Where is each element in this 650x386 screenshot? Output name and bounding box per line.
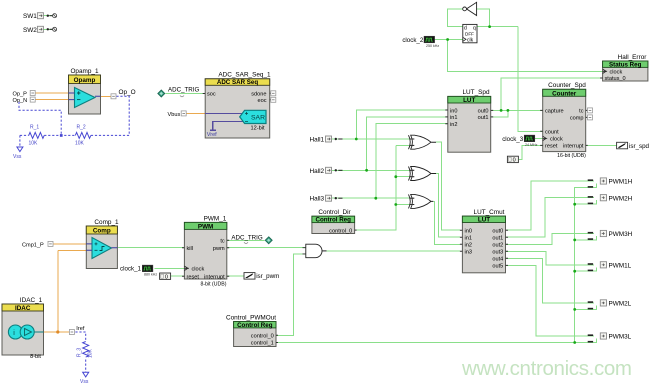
svg-text:eoc: eoc xyxy=(257,98,266,104)
svg-text:out0: out0 xyxy=(492,229,503,235)
svg-text:Control Reg: Control Reg xyxy=(315,217,351,224)
svg-text:DFF: DFF xyxy=(465,31,474,36)
svg-text:capture: capture xyxy=(545,109,564,115)
svg-text:Vref: Vref xyxy=(207,132,217,138)
svg-text:ADC_TRIG: ADC_TRIG xyxy=(231,234,262,241)
svg-text:Vbus: Vbus xyxy=(168,112,181,118)
svg-text:isr_pwm: isr_pwm xyxy=(256,273,279,280)
svg-text:clock_1: clock_1 xyxy=(120,266,142,273)
svg-text:Vss: Vss xyxy=(13,154,22,160)
svg-text:Hall1: Hall1 xyxy=(310,137,325,144)
svg-text:Cmp1_P: Cmp1_P xyxy=(22,242,44,248)
svg-text:Status Reg: Status Reg xyxy=(609,61,642,68)
svg-text:ADC SAR Seq: ADC SAR Seq xyxy=(217,79,258,86)
svg-text:tc: tc xyxy=(579,109,584,115)
svg-text:out5: out5 xyxy=(492,264,503,270)
svg-text:in2: in2 xyxy=(450,122,457,128)
svg-text:clock: clock xyxy=(192,267,205,273)
svg-text:soc: soc xyxy=(207,91,216,97)
svg-text:pwm: pwm xyxy=(213,246,225,252)
svg-text:PWM2H: PWM2H xyxy=(609,195,633,202)
svg-text:out1: out1 xyxy=(492,236,503,242)
svg-text:Opamp: Opamp xyxy=(74,77,96,84)
svg-text:Iref: Iref xyxy=(76,326,85,332)
svg-text:interrupt: interrupt xyxy=(563,144,584,150)
svg-text:250 kHz: 250 kHz xyxy=(426,44,439,48)
svg-text:sdone: sdone xyxy=(251,91,266,97)
svg-text:ADC_SAR_Seq_1: ADC_SAR_Seq_1 xyxy=(218,71,271,78)
svg-text:out4: out4 xyxy=(492,257,503,263)
svg-text:kill: kill xyxy=(187,246,194,252)
svg-text:10K: 10K xyxy=(75,141,85,147)
svg-text:LUT_Spd: LUT_Spd xyxy=(463,89,490,96)
svg-text:www.cntronics.com: www.cntronics.com xyxy=(461,357,632,380)
svg-text:ADC_TRIG: ADC_TRIG xyxy=(168,87,199,94)
svg-text:Comp: Comp xyxy=(93,228,111,235)
svg-text:PWM3H: PWM3H xyxy=(609,231,633,238)
svg-text:SAR: SAR xyxy=(251,115,265,122)
svg-text:status_0: status_0 xyxy=(605,76,626,82)
svg-text:comp: comp xyxy=(570,116,584,122)
svg-text:in3: in3 xyxy=(465,250,472,256)
svg-text:Control_PWMOut: Control_PWMOut xyxy=(226,315,276,322)
svg-text:PWM3L: PWM3L xyxy=(609,334,632,341)
svg-text:IDAC: IDAC xyxy=(15,305,31,312)
svg-text:R_3: R_3 xyxy=(77,348,83,357)
svg-text:PWM1L: PWM1L xyxy=(609,262,632,269)
svg-text:PWM: PWM xyxy=(198,223,213,230)
svg-text:clock_2: clock_2 xyxy=(402,37,424,44)
svg-text:12-bit: 12-bit xyxy=(251,126,265,132)
svg-text:clock_3: clock_3 xyxy=(502,136,524,143)
svg-text:SW2: SW2 xyxy=(23,27,37,34)
svg-text:count: count xyxy=(545,130,559,136)
svg-text:isr_spd: isr_spd xyxy=(629,143,650,150)
svg-text:LUT_Cmut: LUT_Cmut xyxy=(474,209,505,216)
svg-text:16-bit (UDB): 16-bit (UDB) xyxy=(557,153,586,159)
svg-text:reset: reset xyxy=(545,144,558,150)
svg-text:Op_O: Op_O xyxy=(119,89,136,96)
svg-text:Hall3: Hall3 xyxy=(310,196,325,203)
svg-text:in0: in0 xyxy=(450,108,457,114)
svg-text:tc: tc xyxy=(220,239,225,245)
svg-text:Counter: Counter xyxy=(552,90,577,97)
svg-text:10K: 10K xyxy=(29,141,39,147)
svg-text:8-bit (UDB): 8-bit (UDB) xyxy=(201,281,227,287)
svg-text:PWM_1: PWM_1 xyxy=(204,215,227,222)
svg-text:IDAC_1: IDAC_1 xyxy=(20,297,43,304)
svg-text:Comp_1: Comp_1 xyxy=(94,219,119,226)
svg-text:Vss: Vss xyxy=(80,379,89,385)
svg-text:PWM1H: PWM1H xyxy=(609,179,633,186)
svg-text:out3: out3 xyxy=(492,250,503,256)
svg-text:in2: in2 xyxy=(465,243,472,249)
svg-text:in1: in1 xyxy=(450,115,457,121)
svg-text:10K: 10K xyxy=(88,348,94,358)
svg-text:Control_Dir: Control_Dir xyxy=(318,209,351,216)
svg-text:out0: out0 xyxy=(478,108,489,114)
svg-text:Counter_Spd: Counter_Spd xyxy=(548,82,586,89)
svg-text:out1: out1 xyxy=(478,115,489,121)
svg-text:LUT: LUT xyxy=(478,217,490,224)
svg-text:control_0: control_0 xyxy=(251,334,274,340)
svg-text:SW1: SW1 xyxy=(23,13,37,20)
svg-text:clock: clock xyxy=(550,137,563,143)
svg-text:24 MHz: 24 MHz xyxy=(525,143,538,147)
svg-text:in0: in0 xyxy=(465,229,472,235)
svg-text:Control Reg: Control Reg xyxy=(237,322,273,329)
svg-text:Op_P: Op_P xyxy=(13,91,28,97)
svg-text:interrupt: interrupt xyxy=(204,274,225,280)
svg-text:control_1: control_1 xyxy=(251,341,274,347)
svg-text:Opamp_1: Opamp_1 xyxy=(70,68,99,75)
svg-text:8-bit: 8-bit xyxy=(30,354,41,360)
svg-text:R_2: R_2 xyxy=(77,125,86,131)
svg-text:in1: in1 xyxy=(465,236,472,242)
svg-text:reset: reset xyxy=(187,274,200,280)
svg-text:clk: clk xyxy=(467,38,474,44)
svg-text:LUT: LUT xyxy=(463,97,475,104)
svg-text:clock: clock xyxy=(610,70,623,76)
svg-text:Op_N: Op_N xyxy=(13,98,28,104)
svg-text:control_0: control_0 xyxy=(329,228,352,234)
svg-text:Hall_Error: Hall_Error xyxy=(618,54,648,61)
svg-text:R_1: R_1 xyxy=(30,125,39,131)
svg-text:880 kHz: 880 kHz xyxy=(144,273,157,277)
svg-text:out2: out2 xyxy=(492,243,503,249)
svg-text:Hall2: Hall2 xyxy=(310,168,325,175)
svg-text:PWM2L: PWM2L xyxy=(609,301,632,308)
